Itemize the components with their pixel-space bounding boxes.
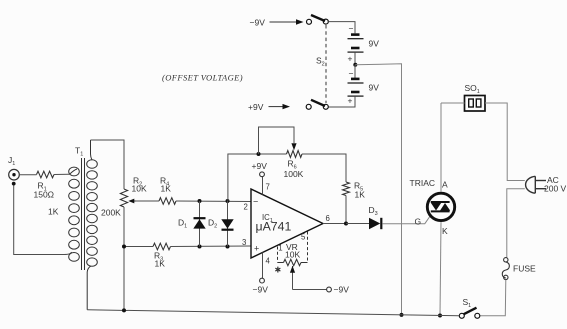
svg-text:T1: T1 [75, 146, 83, 158]
potentiometer R6 [284, 151, 304, 179]
node junction [226, 199, 230, 203]
svg-text:G: G [415, 217, 422, 227]
pin 5 dashed lead [301, 232, 308, 263]
wire [507, 189, 525, 258]
svg-text:S1: S1 [463, 297, 472, 309]
wire [54, 173, 70, 175]
svg-text:SO1: SO1 [465, 83, 480, 95]
svg-text:D3: D3 [369, 205, 378, 217]
offset voltage note [162, 73, 243, 83]
wire wiper to R4 [136, 200, 159, 202]
wire [14, 186, 72, 255]
feedback wire [228, 154, 287, 201]
node junction [257, 152, 261, 156]
svg-text:+9V: +9V [252, 161, 268, 171]
resistor R1 [34, 171, 55, 199]
pin 4 [263, 253, 271, 279]
svg-text:1K: 1K [48, 207, 59, 217]
svg-text:−9V: −9V [334, 285, 350, 295]
label TRIAC [410, 178, 436, 188]
svg-text:1K: 1K [161, 184, 172, 194]
resistor R5 [343, 181, 366, 200]
pin 1 dashed lead [278, 244, 283, 263]
wire R3 line [124, 246, 153, 248]
label A [442, 180, 448, 190]
label FUSE [513, 264, 536, 274]
svg-text:S2: S2 [316, 56, 325, 68]
node junction [226, 245, 230, 249]
node junction [400, 313, 404, 317]
wire [302, 154, 346, 182]
svg-text:9V: 9V [369, 39, 380, 49]
svg-text:✱: ✱ [275, 266, 282, 275]
svg-text:200K: 200K [101, 208, 121, 218]
svg-text:+9V: +9V [248, 102, 264, 112]
node junction [344, 222, 348, 226]
svg-text:D1: D1 [178, 218, 187, 230]
jack J1 [8, 155, 19, 186]
label G [415, 217, 422, 227]
svg-text:200 V: 200 V [544, 184, 567, 194]
svg-text:7: 7 [266, 183, 270, 192]
svg-text:FUSE: FUSE [513, 264, 536, 274]
asterisk [275, 266, 282, 275]
terminal -9V (pin 4) [253, 278, 269, 294]
svg-text:+: + [254, 244, 259, 254]
switch S2 pole a [307, 15, 329, 24]
label 200K [101, 208, 121, 218]
svg-text:2: 2 [244, 203, 248, 212]
node junction [122, 308, 126, 312]
svg-text:1K: 1K [155, 259, 166, 269]
pin 3 [242, 238, 246, 247]
wire battery centre tap to common [355, 64, 401, 315]
wire non-inverting input line [171, 245, 251, 248]
wire triac cathode [440, 222, 441, 315]
svg-text:+: + [348, 54, 353, 64]
svg-text:10K: 10K [285, 250, 300, 260]
switch S1 [459, 297, 480, 318]
pin 6 [326, 214, 330, 223]
svg-text:6: 6 [326, 214, 330, 223]
wire [354, 52, 356, 65]
wire [19, 174, 36, 176]
node junction [438, 314, 442, 318]
switch S2 gang dashed link [316, 25, 326, 103]
diode D1 [178, 201, 206, 247]
wire secondary top to node [91, 140, 125, 189]
wire [485, 103, 525, 181]
svg-text:TRIAC: TRIAC [410, 178, 436, 188]
fuse [502, 258, 509, 280]
diode D2 [208, 201, 234, 247]
svg-text:1: 1 [278, 244, 282, 253]
svg-text:D2: D2 [208, 218, 217, 230]
svg-text:K: K [442, 226, 448, 236]
transformer T1 secondary winding 200K [87, 140, 98, 310]
node junction [198, 245, 202, 249]
wire [328, 22, 355, 34]
svg-text:9V: 9V [369, 83, 380, 93]
svg-text:−: − [253, 197, 258, 207]
battery B1 9V [348, 24, 380, 64]
wire [441, 102, 465, 104]
node junction [198, 199, 202, 203]
svg-text:5: 5 [301, 233, 306, 242]
resistor R3 [153, 243, 171, 268]
terminal -9V (offset) [327, 285, 350, 295]
wire common bottom rail [87, 310, 459, 316]
svg-text:100K: 100K [284, 169, 304, 179]
svg-text:4: 4 [266, 257, 271, 266]
svg-text:3: 3 [242, 238, 246, 247]
svg-text:10K: 10K [132, 184, 147, 194]
svg-text:J1: J1 [8, 155, 15, 167]
wire triac anode [440, 103, 442, 192]
terminal +9V (pin 7) [252, 161, 268, 177]
wire [123, 247, 125, 311]
svg-text:150Ω: 150Ω [34, 190, 55, 200]
svg-text:−9V: −9V [253, 285, 269, 295]
transformer T1 core [82, 158, 85, 270]
switch S2 pole b [306, 100, 328, 110]
op-amp IC1 uA741 [251, 189, 323, 258]
svg-text:(OFFSET VOLTAGE): (OFFSET VOLTAGE) [162, 73, 243, 83]
pin 7 [263, 177, 270, 195]
wire [480, 280, 506, 316]
svg-text:A: A [442, 180, 448, 190]
wire [345, 196, 347, 224]
potentiometer VR1 10K offset null [278, 242, 308, 266]
socket SO1 [465, 83, 486, 111]
transformer T1 primary winding 1K [69, 167, 80, 261]
node junction [122, 245, 126, 249]
wire [123, 207, 125, 247]
terminal +9V supply [248, 102, 290, 112]
pin 2 [244, 203, 248, 212]
svg-text:−9V: −9V [250, 18, 266, 28]
triac [427, 193, 454, 220]
VR1 wiper wire to -9V [290, 266, 327, 290]
resistor R4 [159, 176, 176, 205]
svg-text:μA741: μA741 [256, 220, 292, 234]
svg-text:−: − [349, 69, 354, 79]
wire gate line [382, 217, 430, 224]
label 1K [48, 207, 59, 217]
plug AC 200V [526, 175, 567, 194]
transformer T1 [75, 146, 83, 158]
wire inverting input line [176, 200, 251, 203]
rheostat loop wire [259, 127, 297, 154]
node junction [353, 63, 357, 67]
wire output [323, 223, 369, 225]
battery B2 9V [328, 65, 379, 107]
terminal -9V supply [250, 18, 304, 28]
diode D3 [346, 205, 381, 229]
svg-text:−: − [349, 24, 354, 34]
svg-text:+: + [348, 96, 353, 106]
potentiometer R2 [120, 176, 147, 208]
label K [442, 226, 448, 236]
svg-text:1K: 1K [355, 190, 366, 200]
